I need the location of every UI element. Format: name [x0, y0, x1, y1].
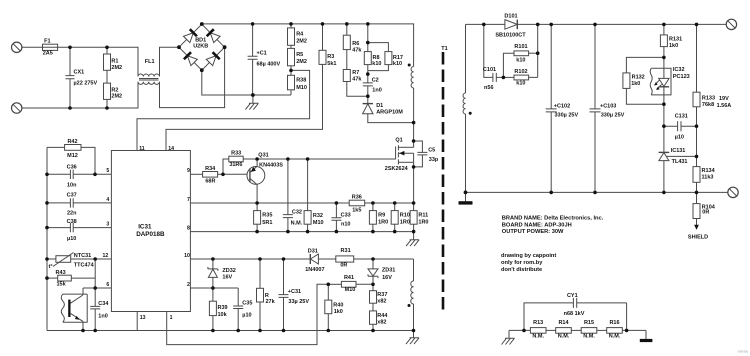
- svg-text:Q1: Q1: [395, 138, 402, 144]
- svg-text:TTC474: TTC474: [74, 263, 95, 269]
- resistor R16: [607, 328, 646, 334]
- resistor R102: [503, 24, 537, 80]
- svg-text:3: 3: [106, 222, 109, 228]
- capacitor C31: [279, 259, 289, 331]
- wire pin7 row: [190, 202, 349, 204]
- svg-text:D31: D31: [308, 249, 318, 255]
- svg-text:R38: R38: [296, 78, 306, 84]
- svg-text:rom.by: rom.by: [738, 350, 749, 354]
- ground sense: [406, 232, 419, 247]
- svg-text:n68 1kV: n68 1kV: [564, 311, 585, 317]
- shunt reference IC131 TL431: [659, 152, 697, 192]
- svg-text:C2: C2: [372, 78, 379, 84]
- svg-text:R17: R17: [393, 55, 403, 61]
- wire gate rail: [243, 158, 395, 160]
- svg-text:C35: C35: [242, 301, 252, 307]
- capacitor C5: [414, 141, 428, 167]
- svg-text:11k3: 11k3: [702, 175, 714, 181]
- ground CY right chassis: [640, 330, 653, 342]
- wire NTC to pin6 vertical: [94, 259, 96, 288]
- resistor R133: [693, 24, 700, 166]
- svg-text:R3: R3: [327, 54, 334, 60]
- capacitor CY1: [524, 298, 627, 331]
- svg-text:R8: R8: [373, 55, 380, 61]
- zener ZD32: [208, 259, 218, 288]
- svg-text:12: 12: [103, 253, 109, 259]
- svg-text:R133: R133: [702, 96, 715, 102]
- svg-text:k10: k10: [516, 81, 525, 87]
- labels driver: [205, 151, 428, 228]
- junction dots primary: [45, 22, 415, 332]
- svg-text:R36: R36: [352, 194, 362, 200]
- svg-text:0R: 0R: [702, 209, 709, 215]
- svg-text:SB10100CT: SB10100CT: [495, 32, 526, 38]
- terminal output plus: [726, 19, 736, 29]
- transformer T1 primary winding: [408, 64, 414, 88]
- capacitor C102: [546, 24, 557, 192]
- ground CY left: [502, 330, 515, 344]
- svg-text:R10: R10: [400, 213, 410, 219]
- transistor Q31 KN4403S: [247, 159, 265, 203]
- svg-text:+C1: +C1: [257, 51, 267, 57]
- capacitor C131: [664, 104, 697, 152]
- svg-text:C5: C5: [428, 147, 435, 153]
- svg-text:1R0: 1R0: [400, 220, 410, 226]
- resistor R6: [343, 24, 350, 50]
- resistor R132: [623, 57, 664, 104]
- diode D31: [310, 254, 336, 264]
- resistor R36: [349, 200, 413, 206]
- svg-text:R34: R34: [205, 166, 216, 172]
- svg-text:9: 9: [187, 168, 190, 174]
- fuse F1: [43, 44, 58, 50]
- svg-text:F1: F1: [44, 38, 50, 44]
- svg-text:1: 1: [170, 315, 173, 321]
- capacitor C2: [363, 74, 373, 96]
- svg-text:OUTPUT POWER: 30W: OUTPUT POWER: 30W: [502, 229, 564, 235]
- diode D101 SB10100CT: [505, 20, 726, 30]
- svg-text:R14: R14: [558, 320, 569, 326]
- wire divider tap to pin 11: [137, 70, 310, 150]
- svg-text:R35: R35: [262, 213, 272, 219]
- svg-text:drawing by cappoint: drawing by cappoint: [501, 253, 556, 259]
- svg-text:10k: 10k: [218, 312, 228, 318]
- svg-text:1k0: 1k0: [631, 81, 640, 87]
- wire pin13: [136, 312, 138, 331]
- svg-text:330µ 25V: 330µ 25V: [555, 113, 579, 119]
- svg-text:R32: R32: [313, 213, 323, 219]
- svg-text:R15: R15: [584, 320, 594, 326]
- svg-text:N.M.: N.M.: [583, 334, 595, 340]
- resistor R13: [530, 328, 555, 334]
- svg-text:µ10: µ10: [67, 236, 76, 242]
- resistor R15: [581, 328, 607, 334]
- junction dots secondary: [464, 23, 699, 195]
- resistor R35: [254, 203, 261, 232]
- capacitor C34: [90, 288, 100, 331]
- svg-text:16V: 16V: [382, 275, 392, 281]
- svg-text:1n0: 1n0: [372, 88, 381, 94]
- svg-text:1k0: 1k0: [669, 43, 678, 49]
- svg-text:SHIELD: SHIELD: [688, 235, 708, 241]
- wire pin10 row: [190, 258, 310, 260]
- resistor R101: [503, 51, 537, 78]
- svg-text:k10: k10: [516, 57, 525, 63]
- resistor R33: [223, 156, 243, 174]
- svg-text:N.M.: N.M.: [609, 334, 621, 340]
- svg-text:IC131: IC131: [671, 148, 686, 154]
- svg-text:R102: R102: [514, 69, 527, 75]
- capacitor C38: [47, 223, 111, 232]
- svg-text:M12: M12: [67, 153, 78, 159]
- svg-text:R41: R41: [344, 275, 354, 281]
- svg-text:2: 2: [187, 282, 190, 288]
- labels HV divider: [296, 32, 403, 116]
- transformer T1 secondary winding: [463, 24, 472, 192]
- svg-text:10n: 10n: [67, 182, 77, 188]
- resistor R1: [104, 47, 111, 70]
- wire AC neutral rail: [22, 82, 138, 108]
- svg-text:R4: R4: [296, 32, 304, 38]
- svg-text:ZD31: ZD31: [382, 267, 395, 273]
- svg-text:2M2: 2M2: [296, 39, 307, 45]
- labels IC31 and pins: [103, 146, 190, 321]
- svg-text:NTC31: NTC31: [74, 253, 91, 259]
- capacitor C1: [248, 24, 258, 95]
- svg-text:R39: R39: [218, 305, 228, 311]
- svg-text:+C31: +C31: [288, 289, 301, 295]
- svg-text:R31: R31: [341, 248, 351, 254]
- resistor R43: [47, 275, 95, 281]
- mosfet Q1 2SK2624: [396, 145, 414, 203]
- svg-text:C37: C37: [67, 192, 77, 198]
- svg-text:C32: C32: [292, 210, 302, 216]
- wire CY row: [509, 329, 530, 331]
- svg-text:N.M.: N.M.: [291, 221, 303, 227]
- svg-text:R42: R42: [67, 139, 77, 145]
- svg-text:16V: 16V: [222, 275, 232, 281]
- wire pin6 row: [83, 287, 111, 289]
- svg-text:M10: M10: [296, 85, 307, 91]
- svg-text:M10: M10: [313, 220, 324, 226]
- wire R3 to pin 14: [166, 64, 323, 150]
- svg-text:IC32: IC32: [673, 67, 685, 73]
- resistor R42: [47, 145, 95, 175]
- svg-text:68µ 400V: 68µ 400V: [257, 62, 281, 68]
- svg-text:R33: R33: [231, 151, 241, 157]
- svg-text:C36: C36: [67, 164, 77, 170]
- svg-text:14: 14: [168, 146, 174, 152]
- svg-text:5R1: 5R1: [262, 220, 272, 226]
- wire bridge minus rail: [202, 70, 291, 95]
- capacitor C33: [331, 203, 341, 232]
- svg-text:31R6: 31R6: [229, 162, 242, 168]
- resistor R2: [104, 70, 111, 108]
- svg-text:CX1: CX1: [74, 70, 85, 76]
- svg-text:FL1: FL1: [145, 59, 155, 65]
- capacitor C35: [233, 288, 243, 331]
- svg-text:6: 6: [106, 282, 109, 288]
- transformer T1 core: [442, 52, 445, 310]
- resistor R7: [343, 50, 368, 97]
- svg-text:C34: C34: [98, 301, 109, 307]
- svg-text:R16: R16: [609, 320, 619, 326]
- svg-text:D1: D1: [376, 103, 383, 109]
- svg-text:2M2: 2M2: [111, 65, 122, 71]
- resistor R 27k: [257, 259, 264, 331]
- capacitor CX1: [66, 47, 75, 108]
- svg-text:1R0: 1R0: [378, 220, 388, 226]
- capacitor C101: [484, 24, 504, 82]
- svg-text:N.M.: N.M.: [532, 334, 544, 340]
- svg-text:2M2: 2M2: [296, 59, 307, 65]
- svg-text:R2: R2: [111, 87, 118, 93]
- resistor R32: [304, 159, 311, 232]
- svg-text:R9: R9: [378, 213, 385, 219]
- wire secondary ground rail: [466, 191, 728, 193]
- svg-text:47k: 47k: [352, 77, 362, 83]
- svg-text:+C103: +C103: [600, 103, 616, 109]
- svg-text:C33: C33: [341, 213, 351, 219]
- ground aux: [406, 331, 419, 345]
- svg-text:µ22 275V: µ22 275V: [74, 81, 98, 87]
- svg-text:t°: t°: [49, 264, 53, 270]
- svg-text:330µ 25V: 330µ 25V: [601, 113, 625, 119]
- svg-text:R6: R6: [352, 41, 359, 47]
- resistor R41: [328, 281, 373, 287]
- svg-text:D101: D101: [504, 14, 517, 20]
- svg-text:R44: R44: [377, 313, 388, 319]
- wire pin2 row: [190, 287, 238, 289]
- svg-text:2M2: 2M2: [111, 94, 122, 100]
- svg-text:R43: R43: [56, 270, 66, 276]
- svg-text:1k5: 1k5: [352, 208, 361, 214]
- resistor R44: [370, 303, 377, 330]
- svg-text:PC123: PC123: [673, 74, 690, 80]
- svg-text:13: 13: [140, 315, 146, 321]
- svg-text:8: 8: [187, 226, 190, 232]
- labels T1 Q1: [385, 46, 448, 172]
- svg-text:47k: 47k: [352, 48, 362, 54]
- svg-text:2A5: 2A5: [43, 51, 53, 57]
- choke FL1: [138, 74, 159, 84]
- svg-text:R5: R5: [296, 52, 303, 58]
- svg-text:BOARD NAME: ADP-30JH: BOARD NAME: ADP-30JH: [502, 222, 572, 228]
- resistor R39: [209, 288, 216, 331]
- svg-text:10: 10: [184, 253, 190, 259]
- resistor R14: [556, 328, 582, 334]
- svg-text:33p: 33p: [429, 157, 439, 163]
- svg-text:19V: 19V: [719, 96, 729, 102]
- resistor R3: [319, 24, 326, 65]
- zener ZD31: [368, 259, 378, 284]
- optocoupler phototransistor: [61, 288, 87, 331]
- svg-text:76k8: 76k8: [702, 102, 714, 108]
- labels primary input: [43, 38, 281, 100]
- diode D1: [363, 96, 414, 122]
- svg-text:R40: R40: [333, 303, 343, 309]
- svg-text:5k1: 5k1: [327, 61, 336, 67]
- labels info block: [501, 216, 748, 354]
- ground secondary chassis: [459, 192, 473, 204]
- wire bottom common rail: [47, 330, 414, 332]
- svg-text:ZD32: ZD32: [222, 268, 235, 274]
- terminal AC N: [12, 103, 22, 113]
- svg-text:1.56A: 1.56A: [717, 103, 732, 109]
- svg-text:µ10: µ10: [675, 134, 684, 140]
- svg-text:µ10: µ10: [242, 313, 251, 319]
- labels vcc zone: [218, 248, 396, 325]
- svg-text:N.M.: N.M.: [558, 334, 570, 340]
- resistor R10: [391, 203, 398, 232]
- svg-text:C101: C101: [483, 67, 496, 73]
- svg-text:1n0: 1n0: [98, 314, 107, 320]
- svg-text:TL431: TL431: [672, 159, 688, 165]
- svg-text:7: 7: [187, 197, 190, 203]
- svg-text:33µ 25V: 33µ 25V: [288, 299, 309, 305]
- svg-text:k10: k10: [372, 61, 381, 67]
- svg-text:+C102: +C102: [554, 103, 570, 109]
- svg-text:only for rom.by: only for rom.by: [501, 260, 543, 266]
- transformer T1 aux winding: [408, 259, 414, 331]
- svg-text:0R: 0R: [340, 263, 347, 269]
- svg-text:DAP018B: DAP018B: [136, 231, 165, 238]
- svg-text:U2KB: U2KB: [193, 44, 208, 50]
- svg-text:1R0: 1R0: [418, 220, 428, 226]
- resistor R4: [288, 24, 295, 45]
- bridge rectifier BD1 U2KB: [179, 24, 225, 70]
- svg-text:11: 11: [139, 146, 145, 152]
- svg-text:n56: n56: [484, 85, 493, 91]
- labels CY: [532, 293, 620, 340]
- terminal output minus: [728, 187, 738, 197]
- capacitor C37: [47, 198, 111, 207]
- svg-text:x82: x82: [377, 298, 386, 304]
- svg-text:T1: T1: [441, 46, 447, 52]
- svg-text:IC31: IC31: [138, 224, 152, 231]
- svg-text:4: 4: [106, 197, 109, 203]
- svg-text:R101: R101: [514, 44, 527, 50]
- svg-text:BRAND NAME: Delta Electronics,: BRAND NAME: Delta Electronics, Inc.: [502, 216, 604, 222]
- wire FL1 to bridge bottom: [160, 47, 225, 107]
- svg-text:CY1: CY1: [567, 293, 578, 299]
- resistor R11: [410, 203, 417, 232]
- svg-text:R132: R132: [632, 74, 645, 80]
- svg-text:n10: n10: [341, 222, 350, 228]
- svg-text:M10: M10: [345, 287, 356, 293]
- resistor R37: [370, 284, 377, 303]
- svg-text:68R: 68R: [205, 179, 215, 185]
- svg-text:R11: R11: [418, 213, 428, 219]
- resistor R131: [660, 24, 667, 57]
- svg-text:2SK2624: 2SK2624: [385, 166, 409, 172]
- svg-text:C131: C131: [675, 114, 688, 120]
- optocoupler IC32 PC123 LED: [650, 57, 671, 104]
- svg-text:R134: R134: [702, 168, 716, 174]
- resistor R9: [369, 203, 376, 232]
- resistor R5: [288, 45, 295, 70]
- wire AC live rail: [22, 47, 138, 76]
- wire FL1 to bridge top: [160, 47, 180, 76]
- resistor R134: [693, 167, 700, 193]
- svg-text:Q31: Q31: [258, 153, 268, 159]
- svg-text:R13: R13: [533, 320, 543, 326]
- svg-text:R131: R131: [669, 36, 682, 42]
- resistor R8: [364, 24, 371, 74]
- svg-text:5: 5: [106, 168, 109, 174]
- labels secondary: [483, 14, 731, 241]
- resistor R38: [288, 70, 295, 95]
- wire pin8 ground row: [190, 231, 413, 233]
- svg-text:27k: 27k: [266, 299, 276, 305]
- svg-text:1k0: 1k0: [334, 309, 343, 315]
- terminal AC L: [12, 42, 22, 52]
- svg-text:x82: x82: [377, 320, 386, 326]
- capacitor C32: [283, 159, 293, 232]
- resistor R40: [325, 284, 332, 330]
- svg-text:k10: k10: [393, 61, 402, 67]
- labels left column: [49, 139, 110, 320]
- svg-text:don't distribute: don't distribute: [501, 267, 542, 273]
- resistor R31: [336, 256, 414, 262]
- wire left rail: [46, 147, 48, 330]
- svg-text:R1: R1: [111, 59, 118, 65]
- wire secondary plus rail: [466, 23, 505, 25]
- svg-text:1N4007: 1N4007: [305, 267, 324, 273]
- svg-text:22n: 22n: [67, 211, 77, 217]
- wire drain: [413, 88, 415, 148]
- junction dots CY: [522, 329, 526, 333]
- resistor R34: [190, 172, 247, 178]
- svg-text:R7: R7: [352, 70, 359, 76]
- capacitor C103: [590, 24, 601, 192]
- wire pin1 rail: [167, 284, 329, 344]
- capacitor C36: [47, 170, 111, 179]
- svg-text:ARGP10M: ARGP10M: [376, 109, 403, 115]
- svg-text:15k: 15k: [57, 282, 67, 288]
- resistor R17: [368, 43, 392, 71]
- thermistor NTC31: [47, 253, 111, 267]
- resistor R104: [693, 192, 700, 229]
- svg-text:C38: C38: [67, 219, 77, 225]
- ground primary: [245, 95, 258, 110]
- wire HV+ rail: [202, 24, 414, 67]
- svg-text:KN4403S: KN4403S: [259, 163, 283, 169]
- svg-text:R37: R37: [377, 292, 387, 298]
- op-amp U1 IC31 DAP018B: [111, 151, 190, 312]
